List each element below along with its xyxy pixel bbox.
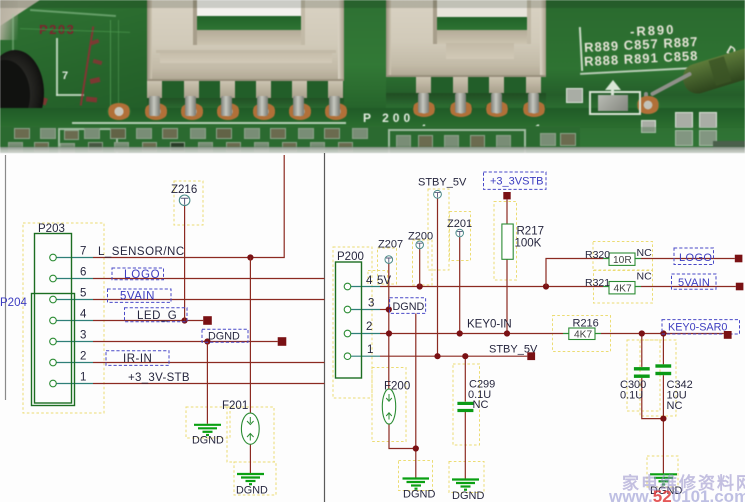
silkscreen 1 — [535, 123, 541, 135]
connector inner shadow band — [160, 53, 332, 63]
watermark — [608, 468, 745, 502]
wire C299 vertical — [464, 356, 466, 401]
port square KEY0-SAR0 — [724, 331, 732, 339]
silkscreen P 200 — [363, 111, 414, 125]
white pad box under right connector — [388, 129, 526, 157]
smd pads under right connector — [396, 135, 411, 148]
svg-text:P203: P203 — [38, 223, 65, 235]
wire 5V rail — [351, 286, 381, 288]
wire STBY row pin1 — [351, 355, 381, 357]
svg-text:P204: P204 — [0, 297, 27, 309]
port square DGND row — [278, 337, 287, 346]
silkscreen P203 (red) — [39, 22, 75, 37]
svg-text:10R: 10R — [613, 255, 632, 266]
resistor R320 — [603, 258, 641, 260]
svg-text:NC: NC — [667, 400, 683, 412]
silkscreen text R888 R891 C858 — [584, 48, 699, 69]
PCB photo strip — [0, 0, 745, 153]
net label box 5VAIN right — [672, 274, 717, 289]
svg-text:Z216: Z216 — [171, 184, 197, 196]
Z207 testpoint — [385, 256, 393, 264]
net label box LOGO right — [674, 248, 714, 265]
svg-text:+3_3VSTB: +3_3VSTB — [490, 176, 544, 188]
yellow selection box P203/P204 — [23, 223, 104, 413]
yellow box Z200 — [413, 240, 433, 285]
svg-text:KEY0-SAR0: KEY0-SAR0 — [668, 322, 727, 334]
svg-text:L_SENSOR/NC: L_SENSOR/NC — [98, 246, 185, 258]
svg-text:5VAIN: 5VAIN — [678, 277, 710, 289]
white silkscreen L line — [56, 38, 58, 96]
svg-text:R321: R321 — [585, 277, 610, 289]
ground DGND under F200 — [403, 479, 430, 489]
wire C300 vertical — [641, 334, 643, 367]
svg-text:LOGO: LOGO — [124, 269, 160, 281]
port square +3_3VSTB — [503, 192, 510, 199]
svg-text:F201: F201 — [222, 400, 248, 412]
svg-text:4: 4 — [80, 309, 87, 321]
junction F200/DGND — [413, 445, 419, 451]
yellow box R321 — [594, 271, 653, 304]
yellow box F201 ground — [234, 462, 276, 495]
ground DGND under F201 — [237, 474, 264, 484]
silkscreen arrow right pcb — [605, 80, 621, 90]
wire DGND net drop — [415, 314, 417, 478]
notch inner shelf — [196, 30, 302, 45]
silkscreen text R889 C857 R887 — [584, 34, 699, 55]
pcb darker left zone — [0, 0, 148, 153]
silkscreen 4 — [420, 123, 426, 135]
svg-text:R216: R216 — [573, 317, 599, 329]
pad no-pin (pos7) — [107, 103, 131, 120]
right connector ledge — [446, 43, 514, 59]
wire R320 to LOGO — [641, 258, 735, 260]
left tab gaps — [162, 80, 184, 98]
svg-text:5V: 5V — [377, 275, 391, 287]
net label box +3_3VSTB — [484, 172, 547, 189]
fuse F201 — [241, 413, 259, 444]
right connector pins — [412, 101, 436, 117]
svg-text:R217: R217 — [517, 226, 545, 238]
right connector notch — [436, 0, 528, 43]
Z200 testpoint — [416, 241, 424, 249]
yellow box R216 — [553, 316, 611, 352]
yellow box Z216 — [174, 181, 203, 225]
smd strip bottom left — [0, 126, 580, 153]
svg-text:NC: NC — [637, 271, 653, 283]
ground DGND left — [194, 425, 221, 435]
silkscreen D — [724, 43, 739, 59]
yellow box C300 — [627, 340, 660, 411]
yellow box caps ground — [647, 456, 678, 487]
svg-text:LOGO: LOGO — [679, 252, 712, 264]
wire pin4 LED_G row — [56, 320, 93, 322]
wire F201 chain — [249, 258, 251, 414]
capacitor C300 — [634, 367, 650, 370]
svg-text:0.1U: 0.1U — [620, 390, 643, 402]
ground DGND under caps — [650, 474, 677, 484]
wire C342 vertical — [662, 334, 664, 365]
section separator line — [324, 153, 326, 502]
strip dim wash — [0, 127, 745, 153]
white pad box bottom left — [58, 128, 118, 157]
wire pin3 DGND row — [56, 341, 93, 343]
junction caps — [660, 416, 666, 422]
wire Z207 drop to F200 — [388, 263, 390, 389]
junction pin3/Z207 — [386, 306, 392, 312]
ground DGND under C299 — [452, 480, 479, 490]
svg-text:DGND: DGND — [192, 435, 224, 447]
green axial resistor — [679, 45, 745, 97]
svg-text:1: 1 — [80, 372, 86, 384]
net label box LED_G — [125, 308, 188, 322]
net label box IR-IN — [106, 351, 169, 366]
wire R217 vertical — [506, 200, 508, 225]
svg-text:4K7: 4K7 — [614, 283, 632, 294]
dark band under connectors — [0, 108, 745, 128]
wire pin5 5VAIN row — [56, 299, 93, 301]
wire pin6 LOGO row — [56, 278, 93, 280]
Z216 testpoint circle — [179, 195, 190, 206]
dark electrolytic component — [0, 50, 44, 136]
left connector notch — [196, 0, 302, 44]
yellow box C299 ground — [449, 462, 484, 493]
yellow box C299 — [453, 364, 480, 445]
yellow box Z201 — [450, 212, 471, 261]
svg-text:DGND: DGND — [452, 490, 484, 502]
yellow box STBY_5V top — [428, 189, 449, 270]
svg-text:NC: NC — [637, 247, 653, 259]
notch side shadows — [193, 0, 197, 45]
resistor R216 — [563, 333, 601, 335]
svg-text:2: 2 — [80, 351, 86, 363]
net label box 5VAIN — [108, 289, 172, 302]
svg-text:4K7: 4K7 — [574, 330, 592, 341]
connector P203 box — [35, 234, 72, 404]
STBY_5V testpoint — [434, 190, 442, 198]
connector right edge — [338, 0, 344, 80]
svg-text:6: 6 — [80, 267, 86, 279]
wire Z201 drop — [459, 237, 461, 334]
resistor lead wire — [650, 71, 692, 96]
port square LED_G — [203, 316, 212, 325]
yellow box 5V pin label — [368, 271, 388, 287]
solder joint ring — [636, 96, 660, 114]
wire Z200 drop — [419, 249, 421, 287]
wire L to R320 — [546, 259, 603, 287]
port square LOGO — [735, 255, 743, 263]
svg-text:P200: P200 — [337, 251, 364, 263]
net label box DGND right — [390, 298, 426, 314]
port square STBY_5V — [527, 352, 535, 360]
junctions STBY row — [434, 353, 440, 359]
yellow box R217 — [494, 202, 517, 281]
connector P204 box — [32, 294, 75, 406]
svg-text:R320: R320 — [585, 249, 610, 261]
yellow box C342 — [640, 340, 676, 416]
fuse F200 — [382, 389, 395, 424]
wire Z216 drop — [184, 206, 186, 321]
svg-text:3: 3 — [80, 330, 86, 342]
wire F200 bottom — [389, 424, 416, 448]
pcb beige corner — [0, 0, 40, 26]
white digit 7 — [62, 70, 68, 82]
yellow box F201 — [227, 407, 274, 462]
svg-text:DGND: DGND — [393, 301, 425, 313]
svg-text:1: 1 — [367, 344, 373, 356]
wire pin7 L_SENSOR row — [56, 257, 93, 259]
wire KEY0-IN row — [351, 333, 381, 335]
svg-text:IR-IN: IR-IN — [123, 353, 152, 365]
svg-text:LED_G: LED_G — [137, 310, 177, 322]
left connector pins — [144, 103, 168, 120]
svg-text:2: 2 — [366, 321, 372, 333]
connector P200 box — [336, 262, 362, 378]
P200 pin circles — [344, 283, 351, 290]
svg-text:3: 3 — [368, 298, 374, 310]
pcb base gradient — [0, 0, 745, 153]
white arrow marker — [78, 124, 92, 134]
photo bottom edge — [0, 147, 745, 153]
svg-text:Z201: Z201 — [447, 218, 472, 230]
faint trace lines upper left — [20, 28, 130, 33]
resistor R217 — [502, 224, 513, 259]
connector shelf line — [156, 50, 336, 53]
junction Z200/5V — [417, 283, 423, 289]
smd components row1 — [14, 128, 30, 139]
left connector pin tabs — [147, 80, 162, 98]
net label box LOGO — [112, 268, 164, 280]
connector left edge — [147, 0, 152, 80]
left connector body — [147, 0, 344, 80]
wire STBY_5V drop — [437, 198, 439, 356]
svg-text:4: 4 — [366, 275, 373, 287]
junction DGND row — [204, 338, 210, 344]
yellow box DGND left — [186, 407, 230, 438]
svg-text:NC: NC — [473, 399, 489, 411]
svg-text:+3_3V-STB: +3_3V-STB — [128, 372, 190, 384]
svg-text:Z207: Z207 — [378, 239, 403, 251]
capacitor C342 — [655, 364, 671, 367]
port square 5VAIN — [736, 283, 744, 291]
white pad box right — [589, 91, 641, 115]
notch green pcb strip — [193, 16, 305, 30]
red rework scribbles — [80, 26, 94, 105]
svg-text:DGND: DGND — [208, 331, 240, 343]
svg-text:5VAIN: 5VAIN — [120, 291, 155, 303]
right pcb silkscreen box lines — [579, 27, 583, 71]
left sheet border — [5, 155, 7, 400]
net label box DGND left — [202, 329, 248, 342]
yellow box R320 — [593, 242, 653, 271]
junctions KEY0-IN row — [386, 330, 392, 336]
silkscreen text R890 — [630, 22, 676, 39]
resistor R321 — [603, 286, 641, 288]
svg-text:7: 7 — [80, 246, 86, 258]
right connector body — [386, 0, 546, 76]
junction Z216/LED_G — [182, 317, 188, 323]
yellow box F200 — [372, 368, 406, 442]
net label box KEY0-SAR0 — [662, 320, 740, 334]
svg-text:100K: 100K — [515, 238, 542, 250]
svg-text:DGND: DGND — [403, 489, 435, 501]
svg-text:KEY0-IN: KEY0-IN — [467, 319, 512, 331]
svg-text:STBY_5V: STBY_5V — [418, 177, 467, 189]
yellow box P200 — [333, 247, 372, 398]
junction pin7 to F201 — [247, 254, 253, 260]
wire DGND drop — [206, 342, 208, 424]
svg-text:5: 5 — [80, 288, 86, 300]
wire pin1 +3_3V-STB row — [56, 383, 93, 385]
junction 5V corner — [543, 283, 549, 289]
yellow box Z207 — [378, 248, 397, 284]
svg-text:DGND: DGND — [236, 485, 268, 497]
right tab gaps — [431, 76, 453, 93]
right pads cluster — [566, 88, 583, 103]
P203 pin circles — [50, 254, 57, 261]
wire pin3 row — [351, 309, 381, 311]
smd components row2 — [8, 142, 23, 152]
right connector pin tabs — [416, 76, 431, 93]
strip between connectors — [344, 0, 386, 108]
yellow box F200 ground — [399, 461, 433, 491]
notch white top — [196, 0, 302, 17]
capacitor C299 — [457, 402, 473, 405]
silkscreen corner lines left — [30, 9, 116, 17]
wire pin2 IR-IN row — [56, 362, 93, 364]
Z201 testpoint — [456, 229, 464, 237]
connector under-shadows — [147, 98, 344, 110]
